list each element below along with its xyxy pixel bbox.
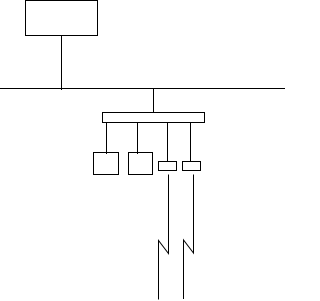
link K1 (small flat box) xyxy=(159,162,177,171)
wire from main bus to busbar xyxy=(153,89,155,113)
main bus (full-width horizontal line) xyxy=(0,88,285,90)
wire drop 2 (busbar to load L2) xyxy=(137,123,139,155)
load L1 (square box) xyxy=(94,153,119,175)
wire drop 1 (busbar to load L1) xyxy=(106,123,108,155)
wire drop 4 (busbar to link K2) xyxy=(190,123,192,163)
feeder wire 1 with break symbol xyxy=(159,175,169,300)
link K2 (small flat box) xyxy=(183,162,201,171)
feeder wire 2 with break symbol xyxy=(184,175,194,300)
load L2 (square box) xyxy=(129,153,153,175)
wire drop 3 (busbar to link K1) xyxy=(167,123,169,163)
source block (top rectangle) xyxy=(26,1,98,36)
busbar (distribution bar) xyxy=(103,113,205,123)
wire from source block to main bus xyxy=(61,36,63,90)
